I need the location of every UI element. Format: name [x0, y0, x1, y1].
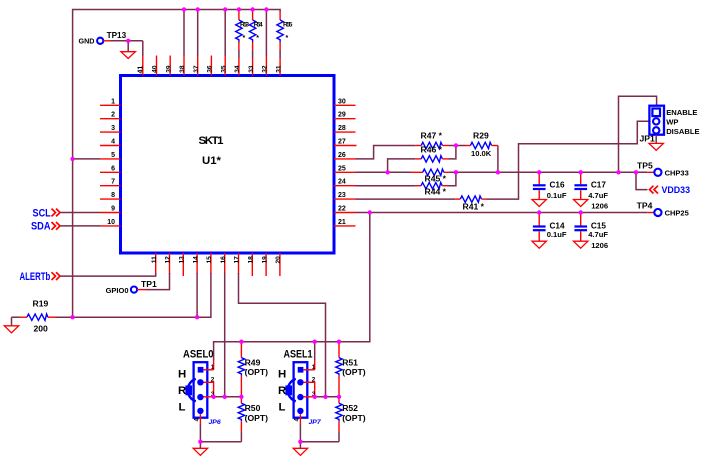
svg-text:ALERTb: ALERTb — [20, 271, 51, 283]
svg-text:R49: R49 — [245, 357, 261, 367]
node R54 bus — [250, 7, 254, 11]
wire pin 24 to R44 — [356, 185, 416, 187]
wire pin35 to bus — [224, 10, 226, 57]
node SCL — [33, 207, 61, 219]
svg-text:1206: 1206 — [591, 201, 608, 210]
svg-text:R: R — [178, 385, 186, 397]
resistor R50 (OPT) — [238, 397, 268, 442]
resistor R52 (OPT) — [336, 397, 366, 442]
resistor R49 (OPT) — [238, 342, 268, 397]
svg-text:*: * — [256, 35, 259, 42]
svg-text:2: 2 — [211, 377, 215, 384]
wire pin 22 down to ASEL rail — [214, 213, 370, 361]
pin 12 — [165, 253, 172, 274]
svg-text:30: 30 — [338, 98, 346, 105]
svg-text:U1*: U1* — [202, 155, 222, 167]
node pin37 bus — [196, 7, 200, 11]
svg-text:R54: R54 — [254, 22, 263, 29]
testpoint TP13 — [79, 31, 143, 45]
svg-text:R29: R29 — [473, 131, 489, 141]
svg-text:JP1: JP1 — [640, 134, 656, 144]
wire pin37 to bus — [197, 10, 199, 57]
pin 40 — [152, 56, 159, 76]
svg-text:GPIO0: GPIO0 — [106, 286, 129, 295]
svg-text:40: 40 — [152, 65, 159, 73]
svg-text:29: 29 — [338, 112, 346, 119]
node pin22 ASEL feed — [368, 210, 372, 214]
jumper JP1 — [640, 106, 665, 144]
node JP7 pin3 b — [323, 395, 327, 399]
ground at C16 — [532, 200, 546, 207]
node R53 bus — [237, 7, 241, 11]
svg-text:DISABLE: DISABLE — [666, 127, 699, 136]
svg-text:34: 34 — [234, 65, 241, 73]
svg-text:0.1uF: 0.1uF — [547, 230, 567, 239]
svg-text:R46 *: R46 * — [421, 145, 443, 155]
wire R44 up to node D — [448, 172, 456, 185]
svg-text:10.0K: 10.0K — [471, 149, 492, 158]
svg-text:26: 26 — [338, 152, 346, 159]
svg-text:12: 12 — [165, 256, 172, 264]
node pin32 bus — [264, 7, 268, 11]
svg-text:4.7uF: 4.7uF — [588, 191, 608, 200]
node pin14 R19 rail — [195, 315, 199, 319]
node JP6 pin3 b — [223, 395, 227, 399]
svg-text:ASEL1: ASEL1 — [284, 348, 314, 360]
pin 34 — [234, 58, 241, 76]
pin 36 — [207, 56, 214, 76]
socket U1/SKT1 body — [121, 76, 335, 254]
wire pin 23 to R41 — [356, 198, 456, 200]
pin 18 — [248, 253, 255, 276]
svg-text:15: 15 — [206, 256, 213, 264]
wire R19 rail to pins 14,15 — [56, 273, 211, 317]
pin 19 — [261, 253, 268, 276]
wire JP6 pin2 — [203, 377, 214, 397]
resistor R53 — [236, 10, 250, 59]
ground at JP1 — [649, 135, 663, 151]
pin 38 — [179, 56, 186, 76]
svg-text:(OPT): (OPT) — [245, 367, 269, 377]
pin 28 — [334, 125, 356, 132]
jumper JP6 header — [194, 362, 221, 426]
svg-text:SCL: SCL — [33, 207, 51, 219]
node R49 R50 — [239, 395, 243, 399]
capacitor C14 — [533, 213, 567, 242]
pin 1 — [100, 98, 121, 105]
svg-text:1: 1 — [312, 364, 316, 371]
svg-text:R50: R50 — [245, 403, 261, 413]
pin 33 — [248, 58, 255, 76]
resistor R29 10.0K — [466, 131, 498, 158]
node JP7 riser — [313, 340, 317, 344]
svg-text:C17: C17 — [591, 180, 606, 189]
ground at TP13 — [121, 41, 135, 59]
svg-text:(OPT): (OPT) — [245, 413, 269, 423]
svg-text:33: 33 — [248, 65, 255, 73]
svg-text:25: 25 — [338, 165, 346, 172]
ground at C14 — [532, 241, 546, 248]
wire R46 row — [388, 159, 416, 172]
pin 37 — [193, 56, 200, 76]
svg-text:13: 13 — [179, 256, 186, 264]
wire JP6 pin3 row — [203, 391, 241, 398]
wire ALERTb to pin 11 — [61, 273, 156, 276]
svg-text:0.1uF: 0.1uF — [547, 191, 567, 200]
svg-text:JP7: JP7 — [309, 419, 322, 426]
node A R47 R29 — [454, 143, 458, 147]
ground at R19 — [4, 317, 18, 333]
svg-text:SDA: SDA — [31, 221, 51, 233]
testpoint TP4 — [637, 201, 689, 218]
svg-text:R: R — [278, 385, 286, 397]
svg-text:2: 2 — [111, 112, 115, 119]
wire JP7 pin4 to ground — [299, 414, 301, 442]
pin 11 — [151, 253, 158, 274]
pin 41 — [137, 56, 144, 76]
wire top bus + left vertical — [73, 10, 281, 318]
svg-text:37: 37 — [193, 65, 200, 73]
svg-text:19: 19 — [261, 256, 268, 264]
svg-text:14: 14 — [192, 256, 199, 264]
resistor R19 — [12, 298, 56, 333]
node VDD33 — [636, 172, 690, 196]
svg-text:16: 16 — [220, 256, 227, 264]
wire JP7 pin1 riser — [303, 342, 315, 371]
pin 25 — [334, 165, 356, 172]
svg-text:6: 6 — [111, 165, 115, 172]
pin 24 — [334, 179, 356, 186]
svg-text:C16: C16 — [550, 180, 565, 189]
pin 4 — [100, 139, 121, 146]
ground at JP7 — [293, 442, 307, 456]
wire JP6 pin1 — [203, 360, 214, 371]
wire VDD rail (pin25 row) — [450, 171, 648, 173]
svg-text:*: * — [243, 35, 246, 42]
svg-text:GND: GND — [79, 36, 95, 45]
ground at C17 — [574, 200, 588, 207]
svg-text:TP4: TP4 — [637, 201, 653, 211]
svg-text:4.7uF: 4.7uF — [588, 230, 608, 239]
pin 30 — [334, 98, 356, 105]
wire R29 down to VDD rail — [497, 146, 499, 173]
svg-text:JP6: JP6 — [209, 419, 221, 426]
svg-text:H: H — [278, 368, 286, 380]
svg-text:39: 39 — [165, 65, 172, 73]
capacitor C17 — [574, 172, 608, 210]
svg-text:1206: 1206 — [591, 241, 608, 250]
svg-text:R52: R52 — [342, 403, 358, 413]
svg-text:10: 10 — [107, 219, 115, 226]
svg-text:20: 20 — [275, 256, 282, 264]
wire SDA to pin 10 — [61, 225, 101, 227]
svg-text:TP13: TP13 — [107, 31, 127, 40]
svg-text:ENABLE: ENABLE — [666, 108, 697, 117]
ground at JP6 — [193, 442, 207, 456]
resistor R44 — [416, 183, 448, 197]
node TP13 ground — [126, 39, 130, 43]
capacitor C16 — [533, 172, 567, 200]
pin 22 — [334, 206, 356, 213]
svg-text:7: 7 — [111, 179, 115, 186]
svg-text:200: 200 — [34, 323, 49, 333]
wire pin38 to bus — [183, 10, 185, 57]
pin 20 — [275, 253, 282, 276]
svg-text:32: 32 — [262, 65, 269, 73]
resistor R41 — [455, 196, 486, 212]
wire TP13 to pin 41 — [142, 41, 144, 56]
node C16 rail — [537, 170, 541, 174]
node VDD33 rail — [634, 170, 638, 174]
pin 14 — [192, 253, 199, 274]
svg-text:4: 4 — [111, 139, 115, 146]
node JP7 ground — [298, 440, 302, 444]
pin 35 — [220, 56, 227, 76]
pin 10 — [100, 219, 121, 226]
svg-text:38: 38 — [179, 65, 186, 73]
resistor R55 — [277, 12, 293, 58]
svg-text:R19: R19 — [33, 298, 49, 308]
node C14 rail — [537, 210, 541, 214]
pin 31 — [275, 58, 282, 76]
svg-text:35: 35 — [220, 65, 227, 73]
pin 23 — [334, 192, 356, 199]
pin 21 — [334, 219, 356, 226]
node B R29 rail — [496, 170, 500, 174]
pin 7 — [100, 179, 121, 186]
resistor R47 — [415, 131, 448, 149]
wire JP7 ground rail to R52 — [300, 441, 339, 443]
resistor R51 (OPT) — [336, 342, 366, 397]
wire JP6 pin4 to ground — [199, 414, 201, 442]
svg-text:R53: R53 — [240, 22, 249, 29]
svg-text:R51: R51 — [342, 357, 358, 367]
wire pin 14 down to rail — [196, 273, 198, 317]
node C R46 rail — [385, 170, 389, 174]
pin 8 — [100, 192, 121, 199]
node R49 top — [239, 340, 243, 344]
wire pin 16 down to ASEL0 — [224, 273, 226, 397]
pin 6 — [100, 165, 121, 172]
svg-text:R41 *: R41 * — [463, 202, 485, 212]
svg-text:(OPT): (OPT) — [342, 413, 366, 423]
svg-text:24: 24 — [338, 179, 346, 186]
svg-text:L: L — [179, 402, 186, 414]
node JP1 feed rail — [616, 170, 620, 174]
svg-text:28: 28 — [338, 125, 346, 132]
wire pin 26 jog up to R47 row — [356, 146, 416, 159]
testpoint TP5 — [637, 160, 689, 177]
node pin5 left bus — [70, 157, 74, 161]
svg-text:CHP25: CHP25 — [665, 209, 689, 218]
resistor R46 — [415, 145, 448, 163]
svg-text:3: 3 — [111, 125, 115, 132]
svg-text:R55: R55 — [283, 22, 293, 29]
svg-text:R44 *: R44 * — [425, 187, 447, 197]
svg-text:(OPT): (OPT) — [342, 367, 366, 377]
node C17 rail — [579, 170, 583, 174]
wire R47 to node A — [449, 145, 466, 147]
ground at C15 — [574, 241, 588, 248]
jumper shunt on JP7 pins 2-3 — [285, 379, 295, 401]
svg-text:TP5: TP5 — [637, 160, 653, 170]
pin 27 — [334, 139, 357, 146]
svg-text:31: 31 — [275, 65, 282, 73]
resistor R45 — [411, 169, 450, 183]
node JP7 pin3 a — [313, 395, 317, 399]
svg-text:L: L — [279, 402, 286, 414]
svg-text:11: 11 — [151, 256, 158, 263]
svg-text:21: 21 — [338, 219, 346, 226]
node SDA — [31, 221, 60, 233]
node ALERTb — [20, 271, 61, 283]
wire JP6 ground rail to R50 — [200, 441, 241, 443]
svg-text:CHP33: CHP33 — [665, 168, 689, 177]
svg-text:9: 9 — [111, 206, 115, 213]
wire pin32 to bus — [265, 10, 267, 57]
pin 9 — [100, 206, 121, 213]
node R51 R52 — [337, 395, 341, 399]
resistor R54 — [249, 10, 263, 59]
svg-text:*: * — [286, 35, 289, 42]
node JP6 ground — [198, 440, 202, 444]
pin 16 — [220, 253, 227, 274]
svg-text:41: 41 — [137, 66, 144, 74]
pin 15 — [206, 253, 213, 274]
pin 26 — [334, 152, 356, 159]
svg-text:R47 *: R47 * — [421, 131, 443, 141]
node D R44 rail — [454, 170, 458, 174]
svg-text:17: 17 — [234, 256, 241, 264]
svg-text:1: 1 — [211, 364, 215, 371]
pin 3 — [100, 125, 121, 132]
pin 17 — [234, 253, 241, 274]
wire pin 17 down to ASEL1 — [239, 273, 326, 397]
svg-text:5: 5 — [111, 152, 115, 159]
pin 5 — [100, 152, 121, 159]
svg-text:TP1: TP1 — [141, 279, 157, 289]
wire pin 25 to R45 — [356, 171, 411, 173]
svg-text:VDD33: VDD33 — [662, 185, 691, 196]
svg-text:23: 23 — [338, 192, 346, 199]
node pin35 bus — [223, 7, 227, 11]
svg-text:SKT1: SKT1 — [199, 135, 225, 147]
svg-text:36: 36 — [207, 65, 214, 73]
node pin38 bus — [182, 7, 186, 11]
svg-text:WP: WP — [666, 117, 678, 126]
svg-text:1: 1 — [111, 98, 115, 105]
wire TP1 to pin 12 — [146, 273, 170, 290]
svg-text:18: 18 — [248, 256, 255, 264]
jumper JP7 header — [294, 362, 322, 426]
svg-text:8: 8 — [111, 192, 115, 199]
svg-text:ASEL0: ASEL0 — [183, 348, 214, 360]
node JP6 pin3 a — [211, 395, 215, 399]
wire pin 5 to left bus — [73, 158, 100, 160]
pin 39 — [165, 56, 172, 76]
wire pin 22 rail to TP4 — [356, 212, 648, 214]
jumper shunt on JP6 pins 2-3 — [185, 379, 195, 401]
svg-text:H: H — [178, 368, 186, 380]
pin 29 — [334, 112, 356, 119]
testpoint TP1 — [106, 279, 157, 295]
node left bus R19 rail — [70, 315, 74, 319]
wire R41 to JP1 WP pin — [487, 121, 650, 199]
pin 13 — [179, 253, 186, 276]
pin 2 — [100, 112, 121, 119]
svg-text:22: 22 — [338, 206, 346, 213]
svg-text:2: 2 — [312, 377, 316, 384]
wire JP1 enable feed from VDD rail — [619, 96, 657, 172]
node C15 rail — [579, 210, 583, 214]
wire R46 up to node A — [449, 146, 456, 159]
pin 32 — [262, 56, 269, 76]
wire JP7 pin3 row — [303, 391, 339, 398]
svg-text:27: 27 — [338, 139, 346, 146]
node R51 top — [337, 340, 341, 344]
wire JP7 pin2 — [303, 377, 315, 397]
wire SCL to pin 9 — [61, 212, 101, 214]
capacitor C15 — [574, 213, 608, 250]
